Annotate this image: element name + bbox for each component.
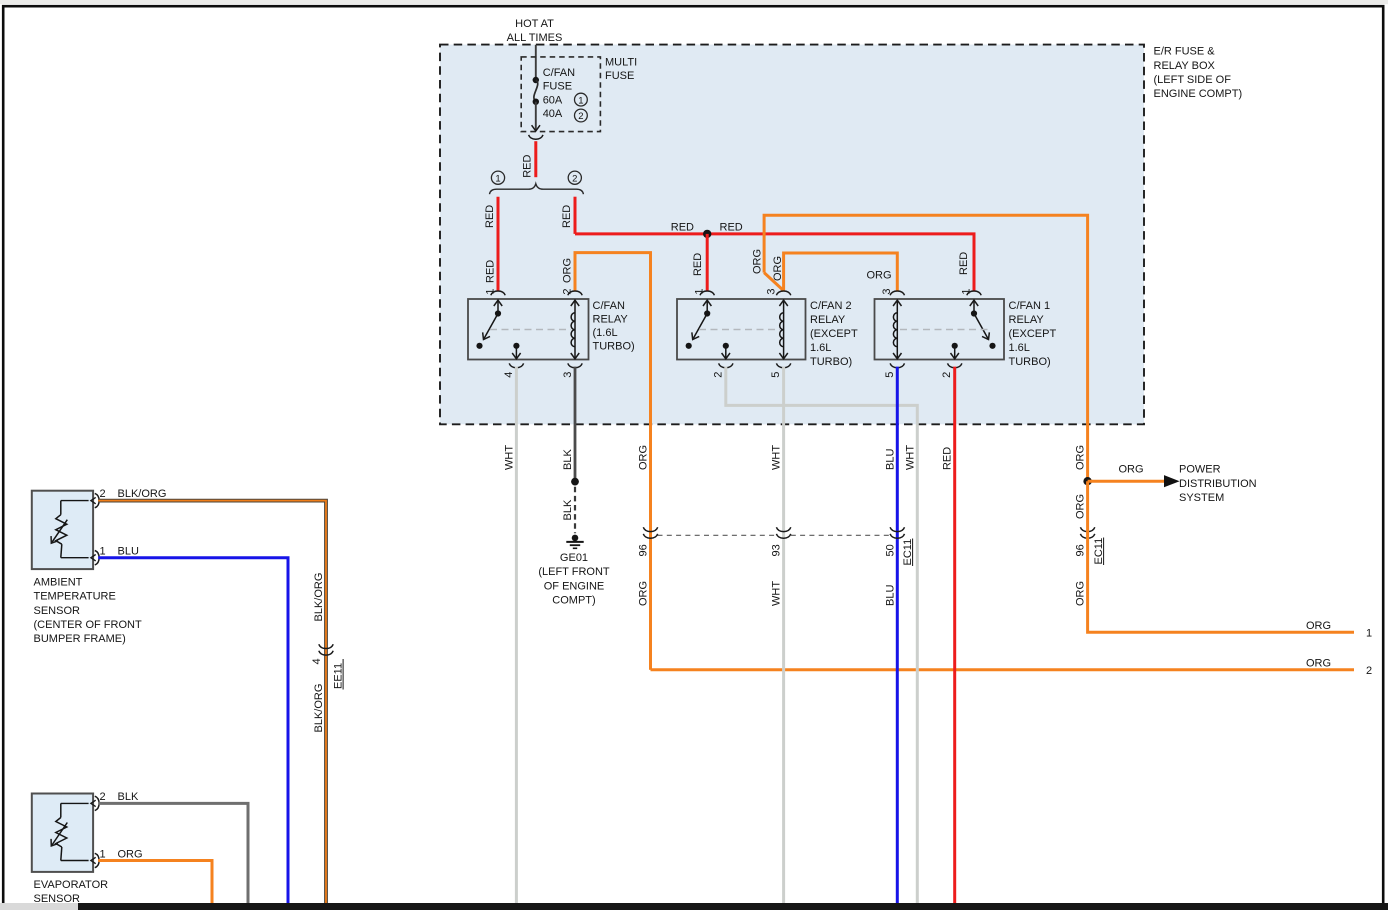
svg-text:ORG: ORG	[1075, 581, 1087, 606]
svg-text:DISTRIBUTION: DISTRIBUTION	[1179, 478, 1257, 490]
svg-text:ORG: ORG	[118, 848, 143, 860]
fuse output pin bracket	[529, 135, 543, 139]
connector 93 on WHT wire	[776, 527, 790, 531]
svg-text:ORG: ORG	[1119, 464, 1144, 476]
svg-text:1: 1	[1366, 627, 1372, 639]
fuse C/FAN FUSE element	[533, 77, 539, 83]
svg-text:96: 96	[638, 544, 650, 556]
svg-text:2: 2	[100, 791, 106, 803]
svg-text:RED: RED	[561, 205, 573, 228]
svg-text:RED: RED	[671, 222, 694, 234]
evaporator sensor	[32, 794, 93, 872]
svg-text:1: 1	[100, 546, 106, 558]
svg-text:C/FAN 1: C/FAN 1	[1009, 300, 1051, 312]
connector 50 EC11 on BLU wire	[890, 527, 904, 531]
svg-text:TURBO): TURBO)	[1009, 356, 1051, 368]
svg-text:40A: 40A	[543, 108, 563, 120]
svg-text:BLU: BLU	[118, 546, 139, 558]
svg-text:FUSE: FUSE	[543, 81, 572, 93]
svg-text:ORG: ORG	[1075, 494, 1087, 519]
svg-text:ORG: ORG	[752, 249, 764, 274]
EC11 connector dashed line	[658, 534, 777, 536]
svg-text:3: 3	[766, 288, 778, 294]
svg-text:1.6L: 1.6L	[810, 342, 831, 354]
svg-text:(1.6L: (1.6L	[593, 327, 618, 339]
wire RED drop to C/FAN 2 relay pin 1	[706, 234, 709, 292]
wire BLK from evaporator sensor	[98, 803, 248, 903]
svg-text:RED: RED	[942, 447, 954, 470]
svg-text:ORG: ORG	[866, 270, 891, 282]
svg-text:TURBO): TURBO)	[810, 356, 852, 368]
svg-text:4: 4	[503, 372, 515, 378]
svg-text:RED: RED	[484, 205, 496, 228]
circled 1 branch	[491, 171, 504, 184]
svg-text:2: 2	[1366, 665, 1372, 677]
svg-text:TURBO): TURBO)	[593, 341, 635, 353]
relay C/FAN 1 RELAY internal dashed line	[900, 329, 989, 331]
svg-text:RED: RED	[692, 253, 704, 276]
connector 96 EC11 on right ORG wire	[1080, 527, 1094, 531]
connector 4 EE11 on BLK/ORG wire	[319, 644, 333, 648]
relay C/FAN RELAY box	[468, 299, 589, 360]
svg-text:ALL TIMES: ALL TIMES	[507, 32, 563, 44]
svg-text:BLK/ORG: BLK/ORG	[118, 488, 167, 500]
svg-text:1: 1	[485, 288, 497, 294]
wire ORG relay2 pin3 to power distribution	[764, 215, 1088, 481]
svg-text:60A: 60A	[543, 94, 563, 106]
svg-text:BLK/ORG: BLK/ORG	[313, 573, 325, 622]
pin brackets C/FAN 2 RELAY	[700, 291, 714, 295]
svg-text:2: 2	[578, 111, 583, 122]
pin brackets C/FAN RELAY	[491, 291, 505, 295]
svg-text:2: 2	[712, 372, 724, 378]
wire WHT from C/FAN 2 relay pin 2	[726, 367, 918, 903]
wire RED branch 2	[574, 197, 577, 234]
relay C/FAN RELAY internal dashed line	[490, 329, 571, 331]
svg-text:RELAY: RELAY	[1009, 314, 1045, 326]
multi fuse box (dashed)	[521, 57, 600, 132]
relay C/FAN 2 RELAY box	[677, 299, 806, 360]
wire RED from C/FAN 1 relay pin 2	[953, 367, 956, 903]
svg-text:WHT: WHT	[503, 445, 515, 470]
connector 96 on ORG wire	[643, 527, 657, 531]
junction ORG power distribution	[1083, 477, 1091, 485]
dashed BLK wire to ground	[574, 487, 576, 533]
svg-text:RELAY BOX: RELAY BOX	[1154, 60, 1216, 72]
svg-text:RELAY: RELAY	[593, 314, 629, 326]
svg-text:ORG: ORG	[1306, 620, 1331, 632]
wire feed into multi fuse	[535, 45, 537, 80]
wire BLU from C/FAN 1 relay pin 5	[896, 367, 899, 903]
svg-text:(EXCEPT: (EXCEPT	[810, 328, 858, 340]
wire BLU from ambient sensor	[98, 558, 288, 903]
svg-text:5: 5	[770, 372, 782, 378]
svg-text:2: 2	[941, 372, 953, 378]
svg-text:RED: RED	[522, 155, 534, 178]
wire RED from fuse	[534, 141, 537, 177]
wire BLK/ORG from ambient sensor	[98, 501, 326, 903]
svg-text:2: 2	[100, 488, 106, 500]
svg-text:BUMPER FRAME): BUMPER FRAME)	[34, 633, 126, 645]
circled 2 branch	[568, 171, 581, 184]
wire BLK from relay pin 3 to ground	[574, 367, 577, 482]
ground GE01 symbol	[572, 535, 579, 542]
svg-text:RELAY: RELAY	[810, 314, 846, 326]
svg-text:WHT: WHT	[904, 445, 916, 470]
svg-text:BLU: BLU	[884, 449, 896, 470]
wire ORG output 1	[1088, 481, 1354, 632]
relay C/FAN 1 RELAY box	[875, 299, 1005, 360]
wire ORG diagonal into C/FAN 2 relay pin 3	[764, 273, 784, 291]
circled 1 (60A)	[575, 93, 588, 106]
svg-text:5: 5	[884, 372, 896, 378]
svg-text:C/FAN: C/FAN	[543, 67, 575, 79]
wire ORG from evaporator sensor	[98, 861, 212, 904]
relay C/FAN 2 RELAY internal dashed line	[699, 329, 780, 331]
svg-text:4: 4	[311, 658, 323, 664]
svg-text:1.6L: 1.6L	[1009, 342, 1030, 354]
circled 2 (40A)	[575, 109, 588, 122]
svg-text:TEMPERATURE: TEMPERATURE	[34, 591, 116, 603]
svg-text:HOT AT: HOT AT	[515, 18, 554, 30]
svg-text:ORG: ORG	[562, 258, 574, 283]
svg-text:(LEFT FRONT: (LEFT FRONT	[538, 566, 610, 578]
svg-text:1: 1	[495, 174, 500, 185]
junction RED bus	[703, 230, 711, 238]
svg-text:RED: RED	[958, 252, 970, 275]
svg-text:RED: RED	[485, 260, 497, 283]
svg-text:ORG: ORG	[638, 581, 650, 606]
wire ORG relay2 pin3 to relay3 pin3	[784, 253, 898, 291]
svg-text:96: 96	[1075, 544, 1087, 556]
svg-text:COMPT): COMPT)	[552, 595, 595, 607]
pin brackets C/FAN 1 RELAY	[890, 291, 904, 295]
svg-text:(CENTER OF FRONT: (CENTER OF FRONT	[34, 619, 142, 631]
svg-text:BLK/ORG: BLK/ORG	[313, 684, 325, 733]
svg-text:93: 93	[771, 544, 783, 556]
wire RED branch 1 to C/FAN relay pin 1	[497, 197, 500, 292]
wire WHT from C/FAN 2 relay pin 5	[782, 367, 785, 903]
splice on BLK wire	[571, 478, 579, 486]
E/R fuse & relay box (dashed enclosure)	[440, 45, 1144, 425]
svg-text:ORG: ORG	[638, 445, 650, 470]
wire RED bus to relay pins 1	[575, 234, 974, 292]
wire ORG from C/FAN relay pin 2 down left side	[575, 253, 651, 669]
arrow to power distribution system	[1164, 475, 1180, 487]
svg-text:C/FAN: C/FAN	[593, 300, 625, 312]
svg-text:ENGINE COMPT): ENGINE COMPT)	[1154, 88, 1243, 100]
svg-text:E/R FUSE &: E/R FUSE &	[1154, 46, 1216, 58]
svg-text:(LEFT SIDE OF: (LEFT SIDE OF	[1154, 74, 1232, 86]
svg-text:SENSOR: SENSOR	[34, 605, 81, 617]
svg-text:3: 3	[562, 372, 574, 378]
svg-text:GE01: GE01	[560, 552, 588, 564]
wire ORG to power distribution system	[1088, 480, 1164, 483]
svg-text:RED: RED	[720, 222, 743, 234]
svg-text:BLK: BLK	[118, 791, 139, 803]
svg-text:2: 2	[572, 174, 577, 185]
svg-text:MULTI: MULTI	[605, 57, 637, 69]
branch brace	[490, 184, 584, 194]
svg-text:1: 1	[578, 95, 583, 106]
svg-text:ORG: ORG	[1306, 657, 1331, 669]
svg-text:WHT: WHT	[771, 445, 783, 470]
svg-text:(EXCEPT: (EXCEPT	[1009, 328, 1057, 340]
svg-text:BLK: BLK	[562, 499, 574, 520]
svg-text:OF ENGINE: OF ENGINE	[544, 580, 605, 592]
svg-text:WHT: WHT	[771, 581, 783, 606]
svg-text:AMBIENT: AMBIENT	[34, 576, 83, 588]
svg-text:SYSTEM: SYSTEM	[1179, 492, 1224, 504]
svg-text:ORG: ORG	[772, 256, 784, 281]
svg-text:BLK: BLK	[562, 449, 574, 470]
wire WHT from relay pin 4	[515, 367, 518, 903]
svg-text:C/FAN 2: C/FAN 2	[810, 300, 852, 312]
svg-text:50: 50	[884, 544, 896, 556]
svg-text:ORG: ORG	[1075, 445, 1087, 470]
svg-text:FUSE: FUSE	[605, 70, 634, 82]
ambient temperature sensor	[32, 491, 93, 569]
svg-text:BLU: BLU	[884, 585, 896, 606]
svg-text:POWER: POWER	[1179, 464, 1221, 476]
svg-text:EVAPORATOR: EVAPORATOR	[34, 879, 109, 891]
svg-text:1: 1	[100, 848, 106, 860]
wire ORG bottom run 2	[651, 668, 1355, 671]
